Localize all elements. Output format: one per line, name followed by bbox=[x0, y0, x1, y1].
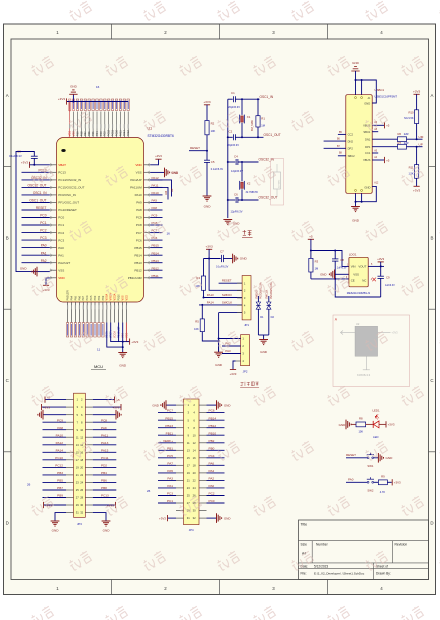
svg-text:+3V3: +3V3 bbox=[203, 100, 211, 104]
wire SWCLK bbox=[199, 304, 242, 306]
svg-text:PC5: PC5 bbox=[90, 295, 93, 300]
wire PA14 (JP3) bbox=[43, 451, 67, 453]
junction bbox=[122, 346, 124, 348]
wire 3V3 stem bbox=[208, 249, 210, 258]
svg-text:PG10/RESET: PG10/RESET bbox=[58, 208, 77, 212]
ground label bbox=[20, 267, 28, 271]
JP3 pins bbox=[66, 398, 93, 515]
JP3 designator bbox=[77, 522, 82, 526]
junction bbox=[310, 250, 312, 252]
svg-text:OSC1_OUT: OSC1_OUT bbox=[264, 133, 281, 137]
USBC1 bottom pin circles bbox=[355, 189, 363, 191]
svg-text:PA0: PA0 bbox=[58, 246, 64, 250]
svg-text:RESET: RESET bbox=[36, 206, 47, 210]
svg-text:PA8: PA8 bbox=[152, 206, 158, 210]
svg-text:GND: GND bbox=[20, 267, 28, 271]
svg-text:PB11/U3R: PB11/U3R bbox=[128, 276, 143, 280]
net label PB7 (JP3) bbox=[57, 486, 63, 490]
svg-text:PA12: PA12 bbox=[152, 176, 159, 180]
ground (C7) bbox=[233, 254, 248, 264]
wire PA12 bbox=[150, 179, 162, 181]
svg-text:PB15: PB15 bbox=[134, 246, 142, 250]
svg-text:LED1: LED1 bbox=[373, 408, 380, 412]
wire DP1 bbox=[372, 146, 397, 148]
capacitor C3 plates bbox=[31, 156, 38, 158]
junction bbox=[227, 161, 229, 163]
net label PA8 (JP3) bbox=[57, 426, 63, 430]
net label PC0 (JP4) bbox=[209, 499, 215, 503]
label 26 (JP4) bbox=[147, 489, 151, 493]
net label PA3 (JP4) bbox=[167, 477, 173, 481]
svg-text:12pF/6.3V: 12pF/6.3V bbox=[231, 209, 243, 213]
wire gnd pin2 bottom bbox=[361, 193, 363, 201]
net label PA11 (JP3) bbox=[101, 433, 108, 437]
wire to C1 bbox=[228, 98, 233, 100]
svg-text:PC5: PC5 bbox=[167, 454, 173, 458]
svg-text:PB8: PB8 bbox=[80, 131, 83, 136]
junction bbox=[227, 199, 229, 201]
svg-text:PA3: PA3 bbox=[225, 349, 231, 353]
wire X2 top bbox=[241, 162, 243, 181]
JP2 pins bbox=[236, 337, 245, 364]
junction bbox=[355, 79, 357, 81]
junction bbox=[416, 146, 418, 148]
svg-text:PC14/OSC32_IN: PC14/OSC32_IN bbox=[58, 178, 81, 182]
net label PD2 (JP3) bbox=[101, 464, 107, 468]
wire PC13 (JP3) bbox=[93, 497, 117, 499]
svg-text:30: 30 bbox=[80, 503, 83, 507]
svg-text:PB11: PB11 bbox=[152, 274, 159, 278]
wire to C6 bbox=[228, 199, 235, 201]
svg-text:1uF/6.3V: 1uF/6.3V bbox=[337, 267, 347, 270]
svg-text:21: 21 bbox=[76, 473, 79, 477]
svg-text:10K: 10K bbox=[211, 129, 216, 133]
ground (JP2) bbox=[214, 352, 223, 367]
svg-text:+5: +5 bbox=[386, 158, 390, 162]
ground (USB top) bbox=[351, 61, 359, 71]
net label PA1 bbox=[41, 251, 47, 255]
ground text right bbox=[172, 171, 180, 175]
svg-text:VSSA: VSSA bbox=[106, 293, 109, 300]
net label PB4 (JP3) bbox=[101, 471, 107, 475]
svg-text:C: C bbox=[6, 378, 9, 383]
svg-text:X2: X2 bbox=[247, 181, 251, 185]
wire OSC32_IN bbox=[238, 161, 259, 163]
wire PA7 (JP4) bbox=[158, 464, 176, 466]
svg-text:PB5: PB5 bbox=[57, 479, 63, 483]
svg-text:PC11: PC11 bbox=[101, 456, 109, 460]
wire PC11 (JP3) bbox=[93, 459, 117, 461]
net label PB14 bbox=[152, 251, 160, 255]
svg-text:PB12: PB12 bbox=[152, 266, 160, 270]
crystal X2 bbox=[240, 181, 245, 190]
svg-text:+3V3: +3V3 bbox=[377, 257, 384, 261]
net label OSC32_IN bbox=[31, 176, 47, 180]
svg-text:17: 17 bbox=[187, 463, 190, 467]
svg-text:PF0/OSC_IN: PF0/OSC_IN bbox=[58, 193, 76, 197]
wire SWCLK to R5 bbox=[201, 305, 203, 319]
svg-text:25: 25 bbox=[187, 494, 190, 498]
wire DN2 bbox=[324, 140, 346, 142]
svg-text:NC: NC bbox=[362, 279, 366, 283]
LED LED1 bbox=[373, 415, 379, 428]
power +5 (VBUS1) bbox=[385, 122, 390, 128]
power +3V3 (top of U1) bbox=[58, 97, 67, 104]
wire PA11 (JP3) bbox=[93, 436, 117, 438]
net label PC12 (JP3) bbox=[55, 464, 63, 468]
svg-text:R8: R8 bbox=[359, 416, 363, 420]
wire PC13 bbox=[22, 171, 50, 173]
capacitor C8 bbox=[332, 259, 338, 261]
net label PA2 (JP4) bbox=[209, 477, 215, 481]
svg-text:VDD: VDD bbox=[135, 163, 142, 167]
svg-text:Drawn By:: Drawn By: bbox=[376, 572, 391, 576]
net label PC6 bbox=[152, 236, 158, 240]
net label PB2 (JP4) bbox=[209, 439, 215, 443]
wire PA12 (JP3) bbox=[43, 444, 67, 446]
net label PA0 (JP4) bbox=[209, 484, 215, 488]
svg-text:PB9: PB9 bbox=[76, 131, 79, 136]
svg-text:PD2: PD2 bbox=[104, 131, 107, 136]
net label RESET bbox=[36, 206, 47, 210]
wire PB9 (JP3) bbox=[43, 497, 67, 499]
net label OSC32_OUT bbox=[259, 196, 278, 200]
svg-text:+5: +5 bbox=[309, 235, 313, 239]
svg-text:DP1: DP1 bbox=[365, 145, 371, 149]
net label UM bbox=[419, 135, 424, 139]
svg-text:JP3: JP3 bbox=[77, 522, 82, 526]
svg-text:PC13: PC13 bbox=[58, 171, 66, 175]
svg-text:GND: GND bbox=[224, 516, 230, 520]
wire SW2 to R9 bbox=[374, 481, 379, 483]
svg-text:PC0: PC0 bbox=[209, 499, 215, 503]
wire diode gnd join bbox=[258, 334, 268, 336]
net label PA0 bbox=[41, 244, 47, 248]
wire RESET bbox=[189, 150, 207, 152]
net label PB11 (JP4) bbox=[166, 431, 174, 435]
wire gnd jp4 L bbox=[166, 404, 176, 406]
svg-text:+3V3: +3V3 bbox=[388, 423, 395, 427]
wire PA5 (JP4) bbox=[158, 472, 176, 474]
junction bbox=[241, 98, 243, 100]
wire PA10 (JP3) bbox=[43, 436, 67, 438]
wire PC0 (JP4) bbox=[207, 502, 225, 504]
svg-text:PC4: PC4 bbox=[209, 454, 215, 458]
resistor R11 bbox=[415, 165, 419, 179]
junction bbox=[72, 101, 74, 103]
svg-text:A12: A12 bbox=[374, 181, 379, 184]
svg-text:C5: C5 bbox=[211, 160, 215, 164]
image box module bbox=[333, 315, 410, 387]
svg-text:PB3: PB3 bbox=[57, 471, 63, 475]
svg-text:Size: Size bbox=[301, 543, 308, 547]
svg-text:PB14: PB14 bbox=[134, 253, 142, 257]
wire PC9 bbox=[150, 217, 162, 219]
svg-text:R10: R10 bbox=[408, 110, 414, 114]
wire PA8 bbox=[150, 209, 162, 211]
svg-text:22R: 22R bbox=[404, 132, 409, 136]
svg-text:OSC1_IN: OSC1_IN bbox=[260, 95, 274, 99]
header JP3 body bbox=[74, 393, 86, 517]
svg-text:PC6: PC6 bbox=[136, 238, 142, 242]
section label clock (CJK) bbox=[242, 230, 253, 238]
wire PB14 bbox=[150, 254, 162, 256]
wire R11 down bbox=[416, 178, 418, 186]
ground (JP3 bottom R) bbox=[102, 521, 111, 533]
net label PB1 (JP4) bbox=[167, 446, 173, 450]
power +3V3 (JP3 row15 L) bbox=[44, 502, 53, 508]
wire C3 to gnd rail bbox=[16, 152, 37, 272]
wire to C2 bbox=[228, 136, 233, 138]
svg-text:PA9: PA9 bbox=[152, 199, 158, 203]
wire PC4 (JP4) bbox=[207, 457, 225, 459]
wire PB10 bbox=[118, 323, 120, 342]
bus width label 16 right bbox=[167, 232, 171, 236]
ground (clock) bbox=[223, 220, 232, 225]
svg-text:PC2: PC2 bbox=[209, 492, 215, 496]
svg-text:PC11: PC11 bbox=[112, 130, 115, 137]
svg-text:GND: GND bbox=[70, 84, 78, 88]
svg-text:12: 12 bbox=[80, 435, 83, 439]
junction bbox=[334, 278, 336, 280]
svg-text:PA11: PA11 bbox=[101, 433, 108, 437]
svg-text:RESET: RESET bbox=[346, 453, 356, 457]
net label PB13 bbox=[152, 259, 160, 263]
svg-text:24: 24 bbox=[80, 481, 83, 485]
wire PB15 bbox=[150, 247, 162, 249]
svg-text:PB7: PB7 bbox=[84, 131, 87, 136]
svg-text:CE: CE bbox=[351, 278, 355, 282]
wire PB12 (JP4) bbox=[207, 427, 225, 429]
svg-text:VSS: VSS bbox=[121, 295, 124, 300]
wire 3V3 row15 L bbox=[44, 504, 66, 506]
svg-text:VBAT: VBAT bbox=[58, 163, 66, 167]
wire PC10 (JP3) bbox=[43, 459, 67, 461]
USBC1 designator bbox=[375, 88, 385, 92]
svg-text:PB0: PB0 bbox=[94, 295, 97, 300]
svg-text:+3V3: +3V3 bbox=[159, 516, 166, 520]
svg-text:PB2: PB2 bbox=[209, 439, 215, 443]
power +3V3 (JP3 row15 R) bbox=[107, 502, 115, 508]
net label PC13 (JP3) bbox=[101, 494, 109, 498]
LDO1 designator bbox=[349, 253, 357, 257]
wire PB11 (JP4) bbox=[158, 434, 176, 436]
TVS diode D1 PESD5V0L1BA bbox=[256, 302, 260, 309]
wire R8 to LED bbox=[366, 423, 373, 425]
resistor R5 bbox=[200, 319, 204, 332]
wire gnd jp3 R bbox=[93, 414, 116, 416]
svg-text:PC0: PC0 bbox=[58, 216, 64, 220]
wire SBU1 stub bbox=[372, 131, 378, 133]
svg-text:C2: C2 bbox=[229, 130, 233, 134]
svg-text:PA10: PA10 bbox=[135, 193, 142, 197]
net label PA13 (JP3) bbox=[101, 441, 109, 445]
svg-text:GND: GND bbox=[240, 257, 248, 261]
wire PA0 to SW2 bbox=[346, 481, 367, 483]
svg-text:PB13: PB13 bbox=[134, 261, 142, 265]
wire PA11 bbox=[150, 186, 162, 188]
net label PB15 bbox=[152, 244, 160, 248]
wire PB13 (JP4) bbox=[158, 427, 176, 429]
wire PA6 (JP4) bbox=[207, 464, 225, 466]
net label OSC32_OUT bbox=[28, 184, 47, 188]
svg-text:GND: GND bbox=[260, 350, 268, 354]
USBC1 right pin designators bbox=[374, 121, 379, 184]
svg-text:SW1: SW1 bbox=[367, 464, 374, 468]
wire PB7 (JP3) bbox=[43, 489, 67, 491]
svg-text:19: 19 bbox=[187, 471, 190, 475]
junction bbox=[416, 138, 418, 140]
wire 3V3 to C9 bbox=[380, 262, 382, 276]
wire PC1 (JP4) bbox=[158, 502, 176, 504]
wire VBUS1 bbox=[372, 124, 384, 126]
net label PB12 (JP4) bbox=[209, 424, 217, 428]
junction bbox=[122, 341, 124, 343]
svg-text:13: 13 bbox=[76, 443, 79, 447]
wire UP bbox=[407, 146, 423, 148]
svg-text:8M_SMD: 8M_SMD bbox=[250, 120, 254, 131]
svg-text:20pF/6.3V: 20pF/6.3V bbox=[227, 143, 239, 147]
wire C3 bottom bbox=[33, 158, 35, 164]
svg-text:DP2: DP2 bbox=[348, 147, 354, 151]
LDO1 pin names bbox=[351, 265, 367, 283]
svg-text:PA10: PA10 bbox=[152, 191, 159, 195]
wire PB13 bbox=[150, 262, 162, 264]
junction bbox=[361, 201, 363, 203]
svg-text:PD2: PD2 bbox=[101, 464, 107, 468]
svg-text:PB14: PB14 bbox=[152, 251, 160, 255]
wire PA1 bbox=[22, 254, 50, 256]
U1 right pin names bbox=[128, 163, 143, 280]
net label PB10 (JP4) bbox=[209, 431, 217, 435]
svg-text:RESET: RESET bbox=[190, 146, 200, 150]
wire gnd to R8 bbox=[351, 423, 356, 425]
net label UP bbox=[419, 142, 423, 146]
net label PA12 (JP3) bbox=[56, 441, 64, 445]
svg-text:PB3: PB3 bbox=[100, 131, 103, 136]
net label PA12 bbox=[152, 176, 159, 180]
resistor R4 bbox=[201, 276, 205, 290]
svg-text:PB4: PB4 bbox=[101, 471, 107, 475]
wire VDD left bbox=[46, 278, 50, 285]
net label PB9 (JP3) bbox=[57, 494, 63, 498]
svg-text:CC2: CC2 bbox=[348, 133, 354, 137]
svg-text:30: 30 bbox=[193, 509, 196, 513]
svg-text:B: B bbox=[6, 235, 9, 240]
wire D2 bottom bbox=[268, 309, 270, 335]
svg-text:0.1uF/6.3V: 0.1uF/6.3V bbox=[211, 168, 224, 171]
power +3V3 (below-left U1) bbox=[42, 285, 49, 292]
ground (top of U1) bbox=[69, 84, 77, 94]
wire gnd jp4 R bbox=[207, 404, 217, 406]
svg-text:PA1: PA1 bbox=[41, 251, 47, 255]
wire to 3V3 bar bbox=[123, 341, 130, 343]
wire PA8 (JP3) bbox=[43, 429, 67, 431]
junction bbox=[257, 136, 259, 138]
svg-text:D: D bbox=[430, 521, 433, 526]
wire R3 down bbox=[310, 272, 312, 279]
svg-text:GND: GND bbox=[339, 423, 347, 427]
svg-text:R7: R7 bbox=[398, 141, 402, 145]
junction bbox=[241, 136, 243, 138]
svg-text:PA14: PA14 bbox=[56, 448, 64, 452]
LED1 labels bbox=[373, 408, 380, 439]
wire VERF+ (JP4) bbox=[158, 442, 176, 444]
svg-text:5/12/2023: 5/12/2023 bbox=[314, 564, 328, 568]
svg-text:PB15: PB15 bbox=[165, 416, 173, 420]
capacitor C6 bbox=[236, 197, 238, 203]
net label PA2 bbox=[41, 259, 47, 263]
svg-text:PB4: PB4 bbox=[96, 131, 99, 136]
net label PA15 (JP3) bbox=[101, 448, 109, 452]
svg-text:GND: GND bbox=[364, 186, 370, 190]
wire 3V3 to JP1 pin2 bbox=[209, 259, 242, 291]
wire PC1 bbox=[22, 224, 50, 226]
header JP1 bbox=[242, 276, 251, 320]
bus width label 16 bbox=[96, 85, 100, 89]
ground (TVS) bbox=[259, 340, 268, 355]
svg-text:PA14: PA14 bbox=[207, 300, 214, 304]
svg-text:C4: C4 bbox=[234, 155, 238, 159]
wire JP2 pin4 3V3 bbox=[233, 361, 236, 370]
U1 bottom pin names bbox=[67, 290, 129, 300]
svg-text:R1: R1 bbox=[261, 116, 265, 120]
SW1 designator bbox=[367, 464, 374, 468]
svg-text:PA5: PA5 bbox=[167, 469, 173, 473]
net label PC0 bbox=[40, 214, 46, 218]
svg-text:GND: GND bbox=[215, 363, 223, 367]
svg-text:20: 20 bbox=[193, 471, 196, 475]
svg-text:VSS: VSS bbox=[73, 131, 76, 136]
svg-text:GND: GND bbox=[352, 219, 360, 223]
svg-text:DN1: DN1 bbox=[365, 137, 371, 141]
junction bbox=[206, 150, 208, 152]
svg-text:PB9: PB9 bbox=[57, 494, 63, 498]
svg-text:10K: 10K bbox=[358, 430, 363, 434]
svg-text:GND: GND bbox=[52, 529, 60, 533]
wire PB15 (JP4) bbox=[158, 419, 176, 421]
svg-text:PB14: PB14 bbox=[209, 416, 217, 420]
wire gnd pin2 bbox=[361, 80, 363, 95]
svg-text:PA0: PA0 bbox=[209, 484, 215, 488]
svg-text:C1: C1 bbox=[231, 91, 235, 95]
svg-text:28: 28 bbox=[80, 496, 83, 500]
U1 pin-1 marker dot bbox=[61, 149, 65, 152]
wire VOUT bbox=[368, 265, 384, 267]
svg-text:PA8: PA8 bbox=[136, 208, 142, 212]
svg-text:VDD: VDD bbox=[58, 276, 65, 280]
wire PA0 (JP4) bbox=[207, 487, 225, 489]
svg-text:+3V3: +3V3 bbox=[394, 481, 401, 485]
net labels PA14 SWCLK bbox=[207, 300, 232, 304]
net label PC9 (JP3) bbox=[57, 418, 63, 422]
svg-text:Sheet of: Sheet of bbox=[376, 564, 388, 568]
svg-text:PC1: PC1 bbox=[40, 221, 46, 225]
svg-text:R9: R9 bbox=[381, 474, 385, 478]
wire 3V3 to R2 bbox=[206, 105, 208, 121]
wire UP to R11 bbox=[416, 147, 418, 165]
D2 labels bbox=[265, 282, 275, 319]
svg-text:PA13: PA13 bbox=[101, 441, 109, 445]
wire PA2 bbox=[22, 262, 50, 264]
net label PC7 (JP4) bbox=[167, 409, 173, 413]
svg-text:C6: C6 bbox=[234, 193, 238, 197]
svg-text:PC9: PC9 bbox=[152, 214, 158, 218]
svg-text:PA8: PA8 bbox=[57, 426, 63, 430]
wire PA10 bbox=[150, 194, 162, 196]
svg-text:15: 15 bbox=[76, 450, 79, 454]
net label PC10 (JP3) bbox=[55, 456, 63, 460]
